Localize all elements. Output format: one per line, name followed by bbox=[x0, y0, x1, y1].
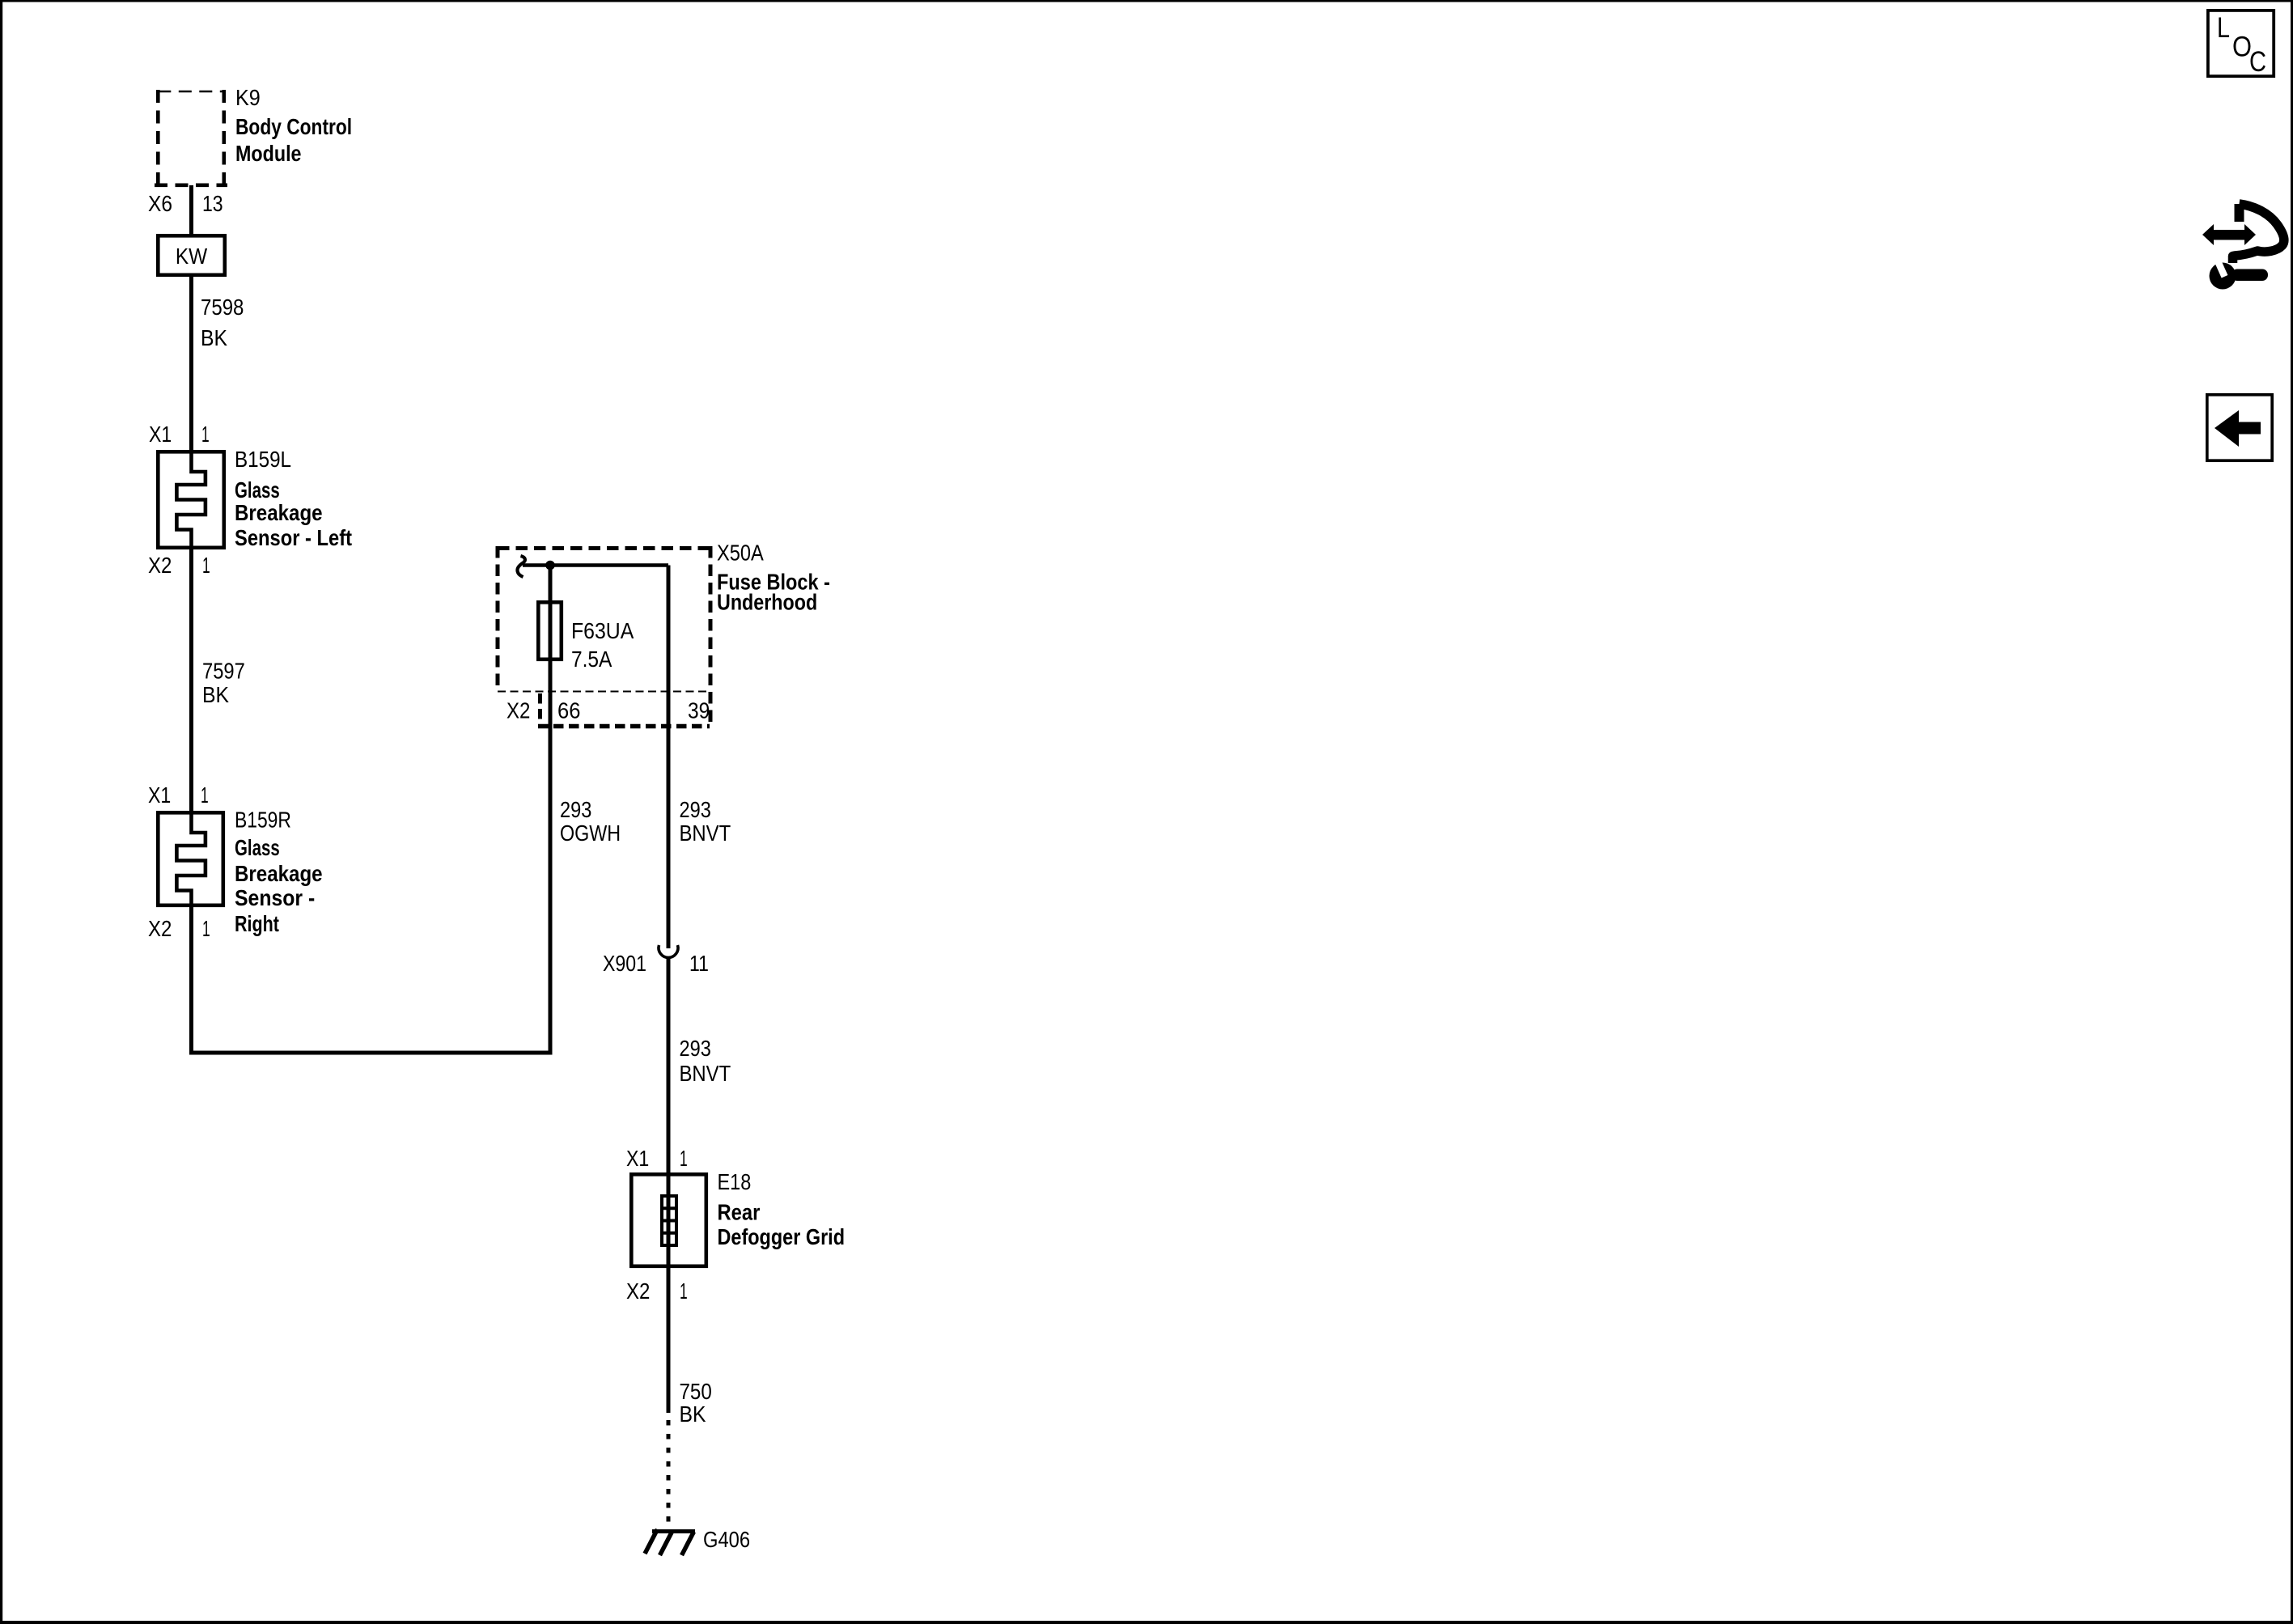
svg-text:BK: BK bbox=[680, 1401, 706, 1427]
back arrow icon bbox=[2207, 395, 2272, 460]
svg-text:X6: X6 bbox=[148, 191, 172, 216]
svg-text:11: 11 bbox=[689, 951, 709, 976]
svg-text:Breakage: Breakage bbox=[235, 500, 323, 525]
svg-text:Module: Module bbox=[235, 141, 302, 166]
inline connector X901 cup bbox=[659, 945, 678, 957]
svg-text:1: 1 bbox=[680, 1278, 688, 1304]
wire pin 39 down to X901 bbox=[667, 566, 671, 949]
wire label 293 BNVT (upper) bbox=[680, 797, 731, 846]
svg-text:750: 750 bbox=[680, 1379, 712, 1404]
svg-text:Glass: Glass bbox=[235, 477, 280, 502]
svg-text:Right: Right bbox=[235, 911, 279, 936]
svg-text:X2: X2 bbox=[506, 698, 530, 723]
svg-text:Glass: Glass bbox=[235, 835, 280, 860]
svg-text:1: 1 bbox=[680, 1146, 688, 1171]
svg-text:293: 293 bbox=[680, 1036, 711, 1061]
wire label 293 BNVT (lower) bbox=[680, 1036, 731, 1086]
svg-text:C: C bbox=[2249, 46, 2266, 78]
svg-text:Sensor -: Sensor - bbox=[235, 885, 315, 910]
fuse F63UA bbox=[538, 602, 562, 659]
svg-text:BK: BK bbox=[202, 682, 229, 707]
svg-text:Underhood: Underhood bbox=[717, 590, 817, 615]
wire B159L to B159R, 7597 BK bbox=[189, 548, 193, 813]
svg-text:1: 1 bbox=[202, 916, 210, 941]
wire K9 to KW bbox=[189, 185, 193, 236]
svg-text:Breakage: Breakage bbox=[235, 861, 323, 886]
svg-text:293: 293 bbox=[680, 797, 711, 822]
svg-text:X50A: X50A bbox=[717, 541, 764, 566]
wire label 293 OGWH bbox=[560, 797, 621, 846]
KW box bbox=[158, 235, 224, 275]
wire hook to pin 39 lead bbox=[523, 563, 668, 567]
svg-text:B159L: B159L bbox=[235, 447, 291, 472]
svg-text:293: 293 bbox=[560, 797, 591, 822]
svg-text:Sensor - Left: Sensor - Left bbox=[235, 525, 352, 550]
diagnostic icon: double arrow with wrench bbox=[2202, 204, 2284, 290]
svg-text:B159R: B159R bbox=[235, 808, 291, 833]
svg-text:X901: X901 bbox=[603, 951, 646, 976]
svg-text:1: 1 bbox=[201, 782, 209, 808]
svg-text:X2: X2 bbox=[148, 916, 172, 941]
svg-text:X2: X2 bbox=[148, 553, 172, 578]
svg-text:F63UA: F63UA bbox=[571, 618, 634, 643]
svg-text:G406: G406 bbox=[703, 1527, 750, 1552]
wire B159R bottom loop to fuse block pin 66 bbox=[192, 728, 551, 1053]
svg-text:7.5A: 7.5A bbox=[571, 647, 612, 672]
glass breakage sensor element B159R bbox=[176, 812, 206, 909]
svg-text:13: 13 bbox=[202, 191, 223, 216]
svg-text:OGWH: OGWH bbox=[560, 820, 621, 846]
fuse block X50A dashed box bbox=[498, 546, 710, 727]
label Fuse Block - Underhood bbox=[717, 570, 830, 615]
junction node bbox=[545, 561, 555, 570]
svg-text:X1: X1 bbox=[148, 782, 171, 808]
ground G406 symbol bbox=[645, 1529, 695, 1555]
wire label 750 BK bbox=[680, 1379, 712, 1427]
wire label 7597 BK bbox=[202, 659, 245, 708]
sensor B159R box bbox=[158, 812, 223, 905]
svg-text:7597: 7597 bbox=[202, 659, 245, 684]
label Glass Breakage Sensor - Left bbox=[235, 477, 352, 550]
svg-text:X1: X1 bbox=[149, 422, 172, 447]
svg-text:66: 66 bbox=[557, 698, 580, 723]
heater grid element bbox=[662, 1196, 676, 1245]
svg-text:X1: X1 bbox=[626, 1146, 649, 1171]
label Body Control Module bbox=[235, 114, 352, 166]
module K9 dashed box bbox=[155, 90, 227, 185]
wire X901 to E18 bbox=[667, 956, 671, 1268]
svg-text:BNVT: BNVT bbox=[680, 1061, 731, 1086]
wire E18 to ground, 750 BK bbox=[667, 1268, 671, 1413]
label F63UA 7.5A bbox=[571, 618, 634, 672]
svg-text:E18: E18 bbox=[718, 1169, 752, 1194]
svg-text:K9: K9 bbox=[235, 85, 261, 110]
svg-text:Defogger Grid: Defogger Grid bbox=[718, 1224, 846, 1249]
wire label 7598 BK bbox=[201, 295, 244, 350]
svg-text:Body Control: Body Control bbox=[235, 114, 352, 139]
rear defogger grid E18 box bbox=[631, 1174, 706, 1266]
svg-text:1: 1 bbox=[201, 422, 210, 447]
wire KW to B159L, 7598 BK bbox=[189, 275, 193, 452]
svg-text:7598: 7598 bbox=[201, 295, 244, 320]
svg-text:L: L bbox=[2217, 12, 2230, 44]
svg-text:BNVT: BNVT bbox=[680, 820, 731, 846]
svg-text:X2: X2 bbox=[626, 1278, 650, 1304]
svg-text:1: 1 bbox=[202, 553, 210, 578]
label Rear Defogger Grid bbox=[718, 1200, 846, 1250]
dotted ground wire bbox=[667, 1420, 671, 1532]
LOC legend box bbox=[2208, 11, 2274, 78]
power feed hook bbox=[517, 556, 524, 577]
svg-text:KW: KW bbox=[176, 244, 208, 269]
svg-text:Rear: Rear bbox=[718, 1200, 761, 1225]
label Glass Breakage Sensor - Right bbox=[235, 835, 323, 936]
svg-text:BK: BK bbox=[201, 325, 227, 350]
glass breakage sensor element B159L bbox=[176, 452, 206, 548]
wire junction down through fuse bbox=[549, 566, 553, 729]
sensor B159L box bbox=[158, 452, 223, 548]
svg-text:39: 39 bbox=[688, 698, 710, 723]
